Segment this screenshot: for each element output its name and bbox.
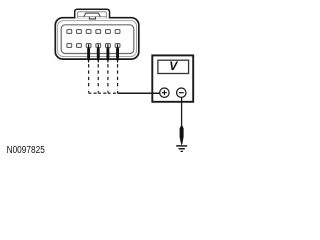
voltmeter minus sign (179, 92, 184, 94)
corner hook dash lead 3 (108, 91, 111, 93)
test probe pin 4 (116, 44, 119, 62)
connector latch base line (78, 16, 106, 18)
pin cavity row 2 cavity 4 (96, 44, 101, 48)
test probe pin 1 (87, 44, 90, 62)
wire from negative terminal to ground (181, 97, 183, 127)
connector latch tab inner outline (78, 12, 107, 18)
connector latch notch detail (89, 17, 95, 19)
test probe pin 2 (97, 44, 100, 62)
pin cavity row 1 cavity 2 (77, 30, 82, 34)
pin cavity row 2 cavity 2 (77, 44, 82, 48)
pin cavity row 1 cavity 1 (67, 30, 72, 34)
pin cavity row 1 cavity 4 (96, 30, 101, 34)
pin cavity row 1 cavity 5 (106, 30, 111, 34)
dashed lead wire from pin 1 (88, 64, 90, 89)
figure label N0097825 (7, 145, 46, 156)
corner hook dash lead 4 (117, 91, 119, 93)
pin cavity row 2 cavity 5 (106, 44, 111, 48)
voltmeter V label (169, 59, 178, 73)
pin cavity row 2 cavity 3 (86, 44, 91, 48)
corner hook dash lead 2 (98, 91, 101, 93)
voltmeter display window (158, 60, 189, 73)
voltmeter plus sign (162, 90, 167, 95)
svg-text:V: V (169, 59, 178, 73)
voltmeter positive terminal circle (160, 88, 169, 97)
connector latch bridge detail (84, 13, 100, 17)
ground symbol bar 3 (181, 151, 183, 152)
test probe pin 3 (106, 44, 109, 62)
bus dash between lead 2 and 3 (103, 92, 106, 94)
dashed lead wire from pin 3 (107, 64, 109, 89)
connector J1 outer shell (55, 18, 139, 59)
connector J1 middle shell line (58, 21, 137, 57)
voltmeter U1 case (152, 55, 193, 101)
svg-text:N0097825: N0097825 (7, 145, 46, 156)
pin cavity row 2 cavity 6 (115, 44, 120, 48)
dashed lead wire from pin 4 (117, 64, 119, 89)
ground probe tip (180, 126, 184, 145)
corner hook dash lead 1 (89, 91, 92, 93)
ground symbol bar 2 (179, 148, 185, 149)
solid wire to voltmeter positive terminal (118, 92, 160, 94)
connector latch tab outer outline (75, 9, 110, 18)
pin cavity row 1 cavity 3 (86, 30, 91, 34)
dashed lead wire from pin 2 (97, 64, 99, 89)
bus dash between lead 1 and 2 (94, 92, 97, 94)
bus dash between lead 3 and 4 (113, 92, 116, 94)
pin cavity row 2 cavity 1 (67, 44, 72, 48)
connector J1 inner mating face (61, 25, 134, 54)
pin cavity row 1 cavity 6 (115, 30, 120, 34)
ground symbol bar 1 (176, 145, 187, 146)
voltmeter negative terminal circle (177, 88, 186, 97)
